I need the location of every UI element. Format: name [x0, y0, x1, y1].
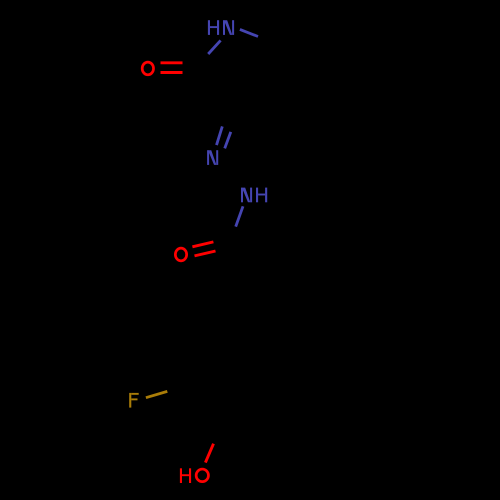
- bond O3-C13 (O half): [205, 444, 213, 463]
- bond N1-C7a (N half): [240, 29, 258, 36]
- atom O3 label "HO" (phenol): [180, 468, 209, 483]
- double bond C8=O2 line 1 (O half, upper): [192, 242, 213, 247]
- atom N1 label "HN" (lactam): [208, 20, 234, 35]
- double bond C2=O1 line 2 (O half): [161, 71, 183, 74]
- double bond C2=O1 line 1 (O half): [161, 61, 183, 64]
- double bond C3=N2 line 2 (N half): [225, 132, 231, 149]
- atom N2 label "N" (imine): [207, 150, 218, 165]
- atom F1 label "F": [129, 393, 139, 408]
- bond F1-C12 (F half): [146, 391, 167, 397]
- double bond C8=O2 line 2 (O half, lower): [195, 251, 216, 256]
- atom N3 label "NH" (hydrazide): [241, 188, 267, 203]
- bond N3-C8 (N half): [236, 206, 243, 226]
- double bond C3=N2 line 1 (N half): [217, 126, 223, 145]
- atom O2 label "O" (amide carbonyl): [175, 248, 186, 261]
- bond N1-C2 (N half): [208, 40, 220, 54]
- atom O1 label "O" (ring carbonyl): [142, 62, 153, 75]
